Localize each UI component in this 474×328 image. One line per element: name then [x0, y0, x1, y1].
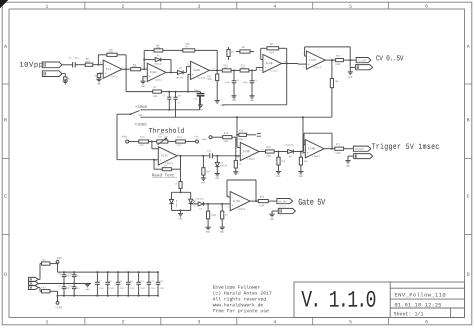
svg-text:GND: GND: [221, 104, 226, 107]
svg-text:100R: 100R: [335, 63, 341, 66]
svg-text:R15: R15: [224, 132, 229, 135]
svg-text:A: A: [4, 44, 7, 50]
svg-text:ENV_Follow_110: ENV_Follow_110: [394, 293, 446, 299]
svg-text:R18: R18: [267, 146, 272, 149]
svg-text:100n: 100n: [194, 89, 200, 92]
svg-text:1N4148: 1N4148: [285, 144, 294, 147]
svg-text:GND: GND: [201, 181, 206, 184]
svg-text:IC3D: IC3D: [243, 150, 250, 153]
svg-text:+: +: [160, 159, 162, 162]
svg-text:+: +: [308, 63, 310, 66]
svg-text:R13: R13: [140, 136, 145, 139]
svg-text:-5V: -5V: [194, 136, 199, 139]
svg-text:All rights reserved: All rights reserved: [213, 296, 267, 302]
svg-text:+12V: +12V: [55, 306, 62, 309]
svg-text:+: +: [242, 155, 244, 158]
svg-text:100n: 100n: [109, 287, 115, 290]
svg-text:CV_OUT: CV_OUT: [356, 61, 364, 64]
svg-text:100k: 100k: [238, 138, 244, 141]
svg-text:<10mS: <10mS: [135, 105, 148, 110]
svg-text:C1: C1: [68, 57, 72, 60]
svg-text:Sheet: 1/1: Sheet: 1/1: [393, 311, 423, 317]
svg-text:5: 5: [349, 4, 352, 10]
svg-text:V. 1.1.0: V. 1.1.0: [301, 289, 376, 315]
svg-text:GND: GND: [276, 175, 281, 178]
svg-text:10u: 10u: [177, 94, 182, 97]
svg-text:100n: 100n: [140, 287, 146, 290]
svg-text:R7: R7: [153, 86, 157, 89]
svg-text:IC2C: IC2C: [150, 71, 157, 74]
svg-text:Read Text: Read Text: [152, 173, 175, 178]
svg-text:3: 3: [197, 319, 200, 325]
svg-text:10k: 10k: [334, 80, 339, 83]
svg-text:-12V: -12V: [55, 257, 62, 260]
svg-text:+: +: [105, 72, 107, 75]
svg-text:100k: 100k: [211, 214, 217, 217]
svg-text:FB1: FB1: [41, 259, 46, 262]
svg-text:1N4148: 1N4148: [154, 63, 163, 66]
svg-text:100k: 100k: [108, 51, 114, 54]
svg-text:GND: GND: [232, 99, 237, 102]
svg-text:1N4148: 1N4148: [175, 76, 184, 79]
svg-text:Gate 5V: Gate 5V: [298, 198, 325, 208]
svg-text:D: D: [4, 272, 7, 278]
svg-text:100n: 100n: [99, 287, 105, 290]
svg-text:4k7: 4k7: [177, 144, 182, 147]
svg-text:100R: 100R: [259, 204, 265, 207]
svg-text:1N4148: 1N4148: [175, 199, 178, 207]
svg-text:GND: GND: [206, 231, 211, 234]
svg-text:IC3A: IC3A: [233, 200, 240, 203]
svg-text:+5V: +5V: [202, 138, 207, 141]
svg-text:IC2B: IC2B: [265, 62, 272, 65]
svg-text:GA_OUT: GA_OUT: [279, 205, 287, 208]
svg-text:100k: 100k: [85, 60, 91, 63]
svg-text:C13: C13: [207, 150, 212, 153]
svg-text:2: 2: [121, 319, 124, 325]
svg-text:4k7: 4k7: [140, 144, 145, 147]
svg-text:1: 1: [45, 319, 48, 325]
svg-text:100R: 100R: [335, 152, 341, 155]
svg-text:GND: GND: [215, 177, 220, 180]
svg-text:+: +: [307, 152, 309, 155]
svg-text:100k: 100k: [152, 95, 158, 98]
svg-text:IC2A: IC2A: [309, 59, 316, 62]
svg-text:470n: 470n: [242, 81, 248, 84]
svg-text:4k7: 4k7: [223, 67, 228, 70]
svg-text:GND: GND: [250, 99, 255, 102]
svg-text:Envelope Follower: Envelope Follower: [213, 285, 261, 291]
svg-text:100n: 100n: [120, 287, 126, 290]
svg-text:5: 5: [349, 319, 352, 325]
svg-text:2: 2: [121, 4, 124, 10]
svg-text:1N4148: 1N4148: [196, 198, 205, 201]
svg-text:01.01.18 12:25: 01.01.18 12:25: [394, 302, 441, 308]
svg-text:GND: GND: [270, 218, 275, 221]
svg-text:3: 3: [197, 4, 200, 10]
svg-text:GND: GND: [348, 76, 353, 79]
svg-text:TR_OUT: TR_OUT: [355, 150, 363, 153]
svg-text:100k: 100k: [269, 51, 275, 54]
svg-text:A: A: [467, 44, 470, 50]
svg-text:10k: 10k: [304, 160, 309, 163]
svg-text:GND: GND: [220, 231, 225, 234]
svg-text:100k: 100k: [132, 66, 138, 69]
svg-text:R21: R21: [336, 143, 341, 146]
svg-text:4u7: 4u7: [74, 57, 79, 60]
svg-text:(c) Harald Antes 2017: (c) Harald Antes 2017: [213, 291, 272, 297]
svg-text:RV1: RV1: [159, 133, 164, 136]
svg-text:GND: GND: [346, 165, 351, 168]
svg-text:100R: 100R: [206, 78, 212, 81]
svg-text:IC3B: IC3B: [308, 147, 315, 150]
svg-text:TL074: TL074: [154, 79, 162, 82]
svg-text:TL071: TL071: [110, 76, 118, 79]
svg-text:SW1: SW1: [138, 114, 143, 117]
svg-text:GA_OUT: GA_OUT: [278, 200, 288, 203]
svg-text:Trigger 5V 1msec: Trigger 5V 1msec: [371, 143, 439, 152]
svg-text:R8: R8: [270, 43, 274, 46]
svg-text:www.haraldswerk.de: www.haraldswerk.de: [213, 302, 264, 308]
svg-text:BAT42: BAT42: [221, 164, 228, 167]
svg-text:100k: 100k: [266, 155, 272, 158]
svg-text:TL074: TL074: [198, 77, 206, 80]
svg-text:100n: 100n: [160, 287, 166, 290]
svg-text:+: +: [192, 74, 194, 77]
svg-text:+: +: [264, 67, 266, 70]
svg-text:GND: GND: [299, 175, 304, 178]
svg-text:R24: R24: [260, 196, 265, 199]
svg-text:CV 0..5V: CV 0..5V: [376, 55, 404, 64]
svg-text:TL074: TL074: [314, 66, 322, 69]
svg-text:6: 6: [425, 4, 428, 10]
svg-text:+: +: [232, 205, 234, 208]
svg-text:R14: R14: [177, 136, 182, 139]
svg-text:IC3C: IC3C: [161, 154, 168, 157]
svg-text:10k: 10k: [206, 170, 211, 173]
svg-text:TL074: TL074: [270, 70, 278, 73]
svg-text:C: C: [4, 194, 7, 200]
svg-text:+: +: [149, 76, 151, 79]
svg-text:LM324: LM324: [247, 158, 255, 161]
svg-text:C: C: [467, 194, 470, 200]
svg-text:10Vpp: 10Vpp: [19, 62, 43, 70]
svg-text:LM324: LM324: [312, 155, 320, 158]
svg-text:1: 1: [45, 4, 48, 10]
svg-text:free for private use: free for private use: [213, 308, 269, 314]
svg-text:100k: 100k: [155, 47, 161, 50]
svg-text:R12: R12: [336, 55, 341, 58]
svg-text:100n: 100n: [150, 287, 156, 290]
svg-text:10k: 10k: [281, 160, 286, 163]
svg-text:IC1: IC1: [106, 68, 111, 71]
svg-text:FB2: FB2: [41, 286, 46, 289]
svg-text:100k: 100k: [223, 140, 229, 143]
svg-text:C12: C12: [193, 98, 198, 101]
svg-text:>10mS: >10mS: [134, 123, 147, 128]
svg-text:B: B: [467, 117, 470, 123]
svg-text:R16: R16: [239, 129, 244, 132]
svg-text:GND: GND: [179, 217, 184, 220]
svg-text:GND: GND: [141, 85, 146, 88]
svg-text:6: 6: [425, 319, 428, 325]
svg-text:4k7: 4k7: [241, 67, 246, 70]
svg-text:GND: GND: [97, 83, 102, 86]
svg-text:4: 4: [273, 4, 276, 10]
svg-text:LM324: LM324: [238, 208, 246, 211]
svg-text:IC2D: IC2D: [193, 69, 200, 72]
svg-text:D: D: [467, 272, 470, 278]
svg-text:GND: GND: [86, 288, 91, 291]
svg-text:100n: 100n: [130, 287, 136, 290]
svg-text:4: 4: [273, 319, 276, 325]
svg-text:470n: 470n: [224, 81, 230, 84]
svg-text:B: B: [4, 117, 7, 123]
svg-text:+5V: +5V: [122, 136, 127, 139]
